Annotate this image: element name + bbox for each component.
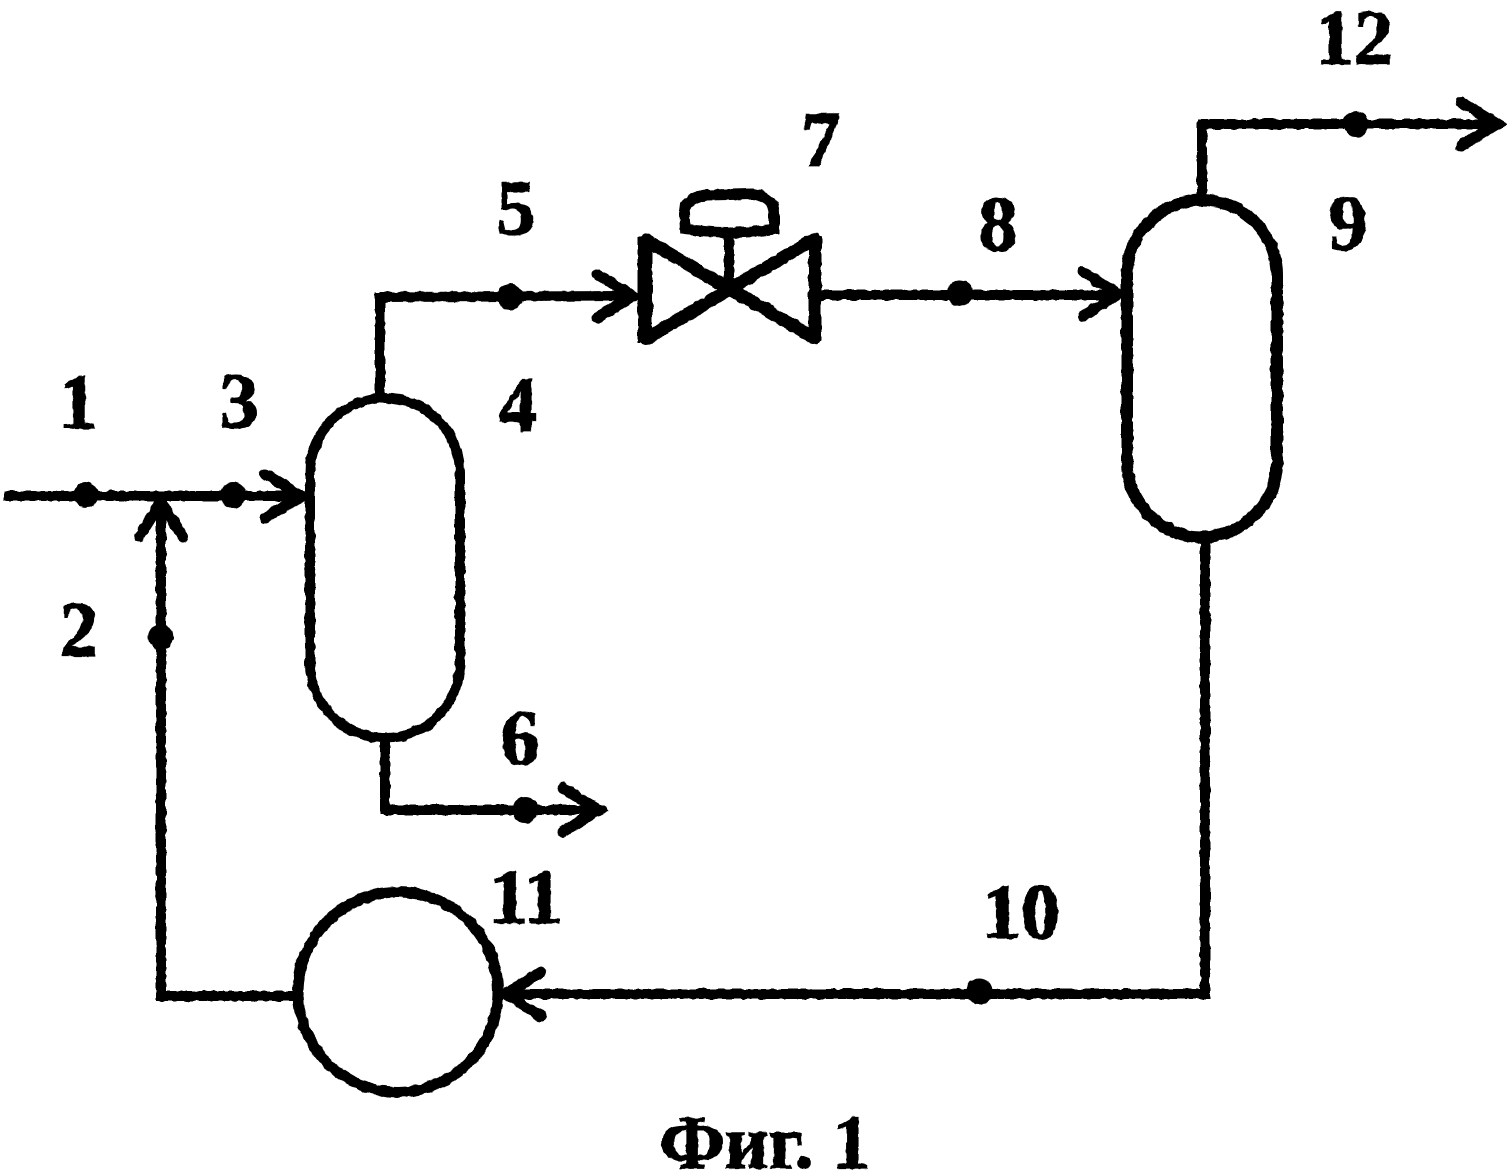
- arrowhead into vessel 4: [265, 474, 302, 518]
- svg-text:10: 10: [982, 868, 1060, 955]
- valve 7 body right gate bar: [809, 236, 822, 341]
- wire input line 1-3 into vessel 4: [4, 491, 290, 501]
- wire vessel 9 bottom to pump 11: [509, 539, 1205, 994]
- valve 7 stem: [724, 232, 734, 288]
- svg-text:4: 4: [499, 361, 538, 448]
- node 2: [148, 624, 174, 650]
- node 3: [220, 482, 246, 508]
- arrowhead outlet 6: [563, 788, 600, 832]
- valve 7 body diagonal (left-bottom to right-top): [646, 239, 814, 339]
- svg-text:9: 9: [1329, 179, 1368, 266]
- node 12: [1343, 111, 1369, 137]
- wire valve 7 to vessel 9: [818, 290, 1110, 300]
- arrowhead up into junction: [139, 502, 183, 537]
- svg-text:7: 7: [802, 96, 841, 183]
- arrowhead into valve 7: [597, 274, 634, 318]
- svg-text:8: 8: [979, 180, 1018, 267]
- svg-text:Фиг. 1: Фиг. 1: [659, 1101, 870, 1174]
- node 1: [73, 482, 99, 508]
- svg-text:3: 3: [220, 357, 259, 444]
- svg-text:6: 6: [501, 694, 540, 781]
- valve 7 body left gate bar: [638, 237, 653, 342]
- node 10: [966, 978, 992, 1004]
- wire vessel 4 bottom drain to arrow 6: [385, 740, 588, 810]
- node 6: [512, 797, 538, 823]
- svg-text:1: 1: [59, 358, 98, 445]
- svg-text:12: 12: [1315, 0, 1393, 81]
- svg-text:2: 2: [60, 586, 99, 673]
- arrowhead outlet 12: [1461, 102, 1498, 146]
- arrowhead into vessel 9: [1083, 272, 1120, 316]
- wire recycle line 2 (vertical) with bottom-left corner: [161, 512, 298, 996]
- wire vessel 9 top outlet 12: [1202, 124, 1486, 198]
- vessel 9: [1127, 200, 1277, 537]
- node 8: [947, 280, 973, 306]
- vessel 4: [310, 398, 460, 738]
- arrowhead into pump 11: [504, 972, 541, 1016]
- node 5: [497, 284, 523, 310]
- pump 11 (circle): [298, 892, 498, 1092]
- wire vessel 4 top to valve 7: [380, 296, 624, 396]
- valve 7 handle: [684, 194, 774, 233]
- svg-text:11: 11: [489, 853, 563, 940]
- valve 7 body diagonal (left-top to right-bottom): [646, 240, 814, 338]
- svg-text:5: 5: [497, 164, 536, 251]
